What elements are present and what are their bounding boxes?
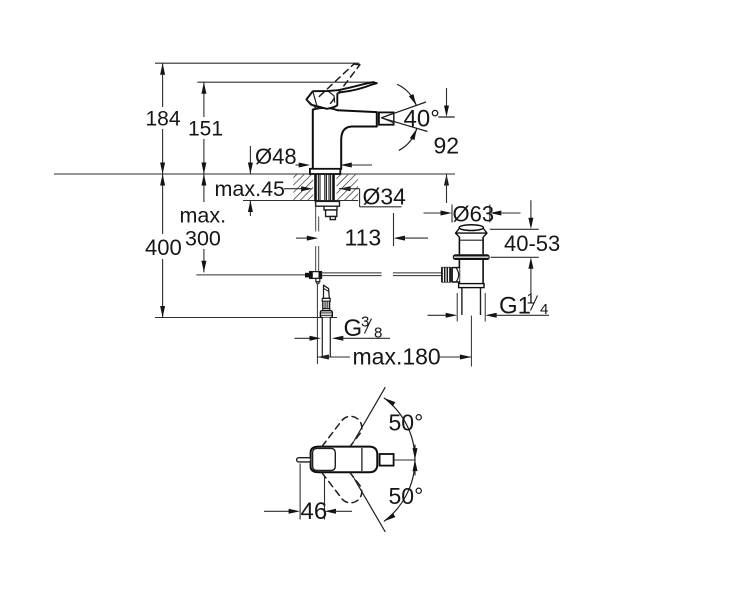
svg-text:max.45: max.45 (215, 177, 286, 201)
top view aerator tip (380, 454, 394, 466)
dimension max. 300 vertical line (203, 174, 205, 202)
waste upper body (458, 237, 460, 254)
dimension 92 spout height (446, 88, 448, 107)
lower 50 degree angle line (354, 478, 385, 532)
dimension 46 extension lines (299, 464, 301, 520)
dimension 184 vertical line (162, 63, 164, 107)
handle raised position (dashed) (319, 64, 354, 97)
svg-text:max.180: max.180 (353, 344, 441, 370)
supply pipe tee to drain valve segment 1 (322, 272, 382, 274)
svg-text:Ø34: Ø34 (363, 184, 407, 210)
dimension max.45 thickness arrows (249, 146, 251, 174)
spout aerator block (379, 112, 394, 124)
svg-text:151: 151 (188, 118, 223, 141)
top view spout centre line (394, 459, 416, 461)
tee left nipple (305, 273, 310, 278)
threaded shank wall right (332, 175, 335, 202)
top view body/spout seam (361, 448, 363, 471)
dimension 46 (264, 510, 290, 512)
waste threaded tailpipe (461, 288, 463, 315)
svg-text:8: 8 (374, 325, 382, 342)
node lower reference line (400 datum) (155, 317, 337, 319)
flexible hose tail (322, 318, 330, 358)
faucet lever handle (solid position) (306, 82, 376, 109)
node lever apex reference line (151 datum) (197, 81, 373, 83)
mounting nut stack under counter (316, 201, 340, 206)
hose knurled section (322, 301, 330, 308)
node mounting plane / counter line (54, 173, 455, 175)
top view handle pin (297, 458, 311, 462)
dimension Ø63 extension lines (451, 205, 453, 223)
faucet base plate (310, 169, 340, 174)
svg-text:50°: 50° (389, 410, 424, 436)
side inlet port (452, 268, 459, 282)
113 right extension line (393, 213, 395, 246)
rigid supply pipe lower segment (315, 246, 317, 272)
shank inner supply pipes (317, 175, 319, 202)
rigid supply pipe upper segment (315, 206, 317, 231)
value label Ø34 (hole diameter) with leader (339, 186, 351, 191)
node top reference line (tip of raised lever, 184 datum) (155, 62, 360, 64)
tee fitting (310, 272, 322, 279)
upper 50 degree angle line (354, 387, 385, 441)
spout swivel lower angle line (381, 118, 427, 132)
faucet body and spout outline (313, 108, 377, 169)
svg-text:50°: 50° (389, 483, 424, 509)
spout swung up 50 degrees (dashed) (322, 416, 362, 446)
top view faucet body (311, 447, 378, 473)
svg-text:184: 184 (146, 108, 181, 131)
svg-text:Ø63: Ø63 (453, 202, 495, 227)
spout swivel upper angle line (381, 102, 426, 118)
svg-text:400: 400 (145, 235, 182, 260)
handle facet lines (313, 91, 318, 108)
tee bottom stub (316, 278, 320, 281)
waste plug cap (459, 225, 483, 231)
dimension max.180 (317, 355, 329, 360)
supply pipe tee to drain valve segment 2 (393, 272, 441, 274)
faucet cartridge dome seam (315, 108, 337, 110)
top view lever knob inner contour (313, 448, 336, 470)
svg-text:4: 4 (540, 301, 548, 318)
flexible hose angled nipple (324, 285, 330, 298)
svg-text:Ø48: Ø48 (255, 144, 297, 169)
dimension 40-53 (530, 200, 532, 219)
50 degree swing arc (384, 398, 415, 521)
swivel 40 degree upper arc with arrow (398, 85, 417, 106)
swivel 40 degree lower arc with arrow (399, 129, 417, 151)
G3/8 union nut (320, 311, 332, 318)
waste flange (seal washer) (453, 254, 490, 260)
dimension G1 1/4 (428, 314, 448, 316)
waste lower body (459, 260, 483, 284)
waste upper neck taper (456, 233, 487, 237)
svg-text:40-53: 40-53 (504, 231, 560, 256)
svg-text:113: 113 (345, 225, 382, 251)
dimension 151 vertical line (203, 82, 205, 117)
dimension 400 vertical line (162, 174, 164, 234)
svg-text:46: 46 (301, 498, 328, 525)
counter bottom line (243, 200, 358, 202)
faucet centre line below tee (316, 284, 318, 364)
drain centre line (470, 316, 472, 367)
swing arc centre arrows at axis (414, 445, 416, 450)
dimension 113 (296, 237, 309, 239)
dimension Ø63 (424, 212, 443, 214)
counter hatch right block (337, 175, 359, 200)
waste bottom cap (459, 284, 484, 288)
spout swung down 50 degrees (dashed) (322, 473, 362, 503)
hose collar (322, 298, 330, 301)
svg-text:40°: 40° (404, 105, 440, 132)
dimension 40-53 extension lines (490, 228, 539, 230)
svg-text:300: 300 (185, 227, 221, 251)
aerator flow triangle (381, 113, 393, 123)
supply line from tee to left (single) (196, 274, 305, 276)
svg-text:max.: max. (180, 204, 227, 228)
side inlet knurled nut (441, 267, 451, 283)
svg-text:3: 3 (361, 314, 369, 331)
threaded shank wall left (314, 175, 317, 202)
svg-text:92: 92 (434, 133, 460, 159)
